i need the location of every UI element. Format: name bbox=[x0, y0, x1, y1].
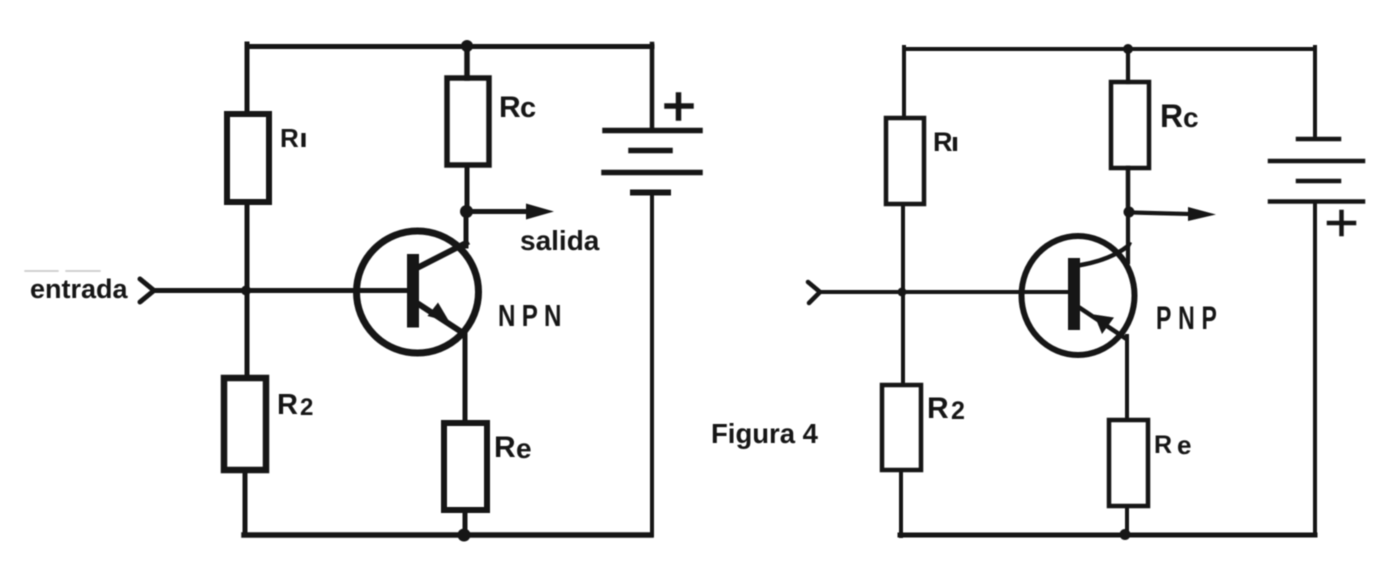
svg-text:salida: salida bbox=[520, 225, 600, 256]
svg-text:c: c bbox=[520, 92, 536, 124]
svg-text:NPN: NPN bbox=[498, 298, 568, 333]
svg-text:R: R bbox=[1154, 431, 1172, 459]
svg-text:R: R bbox=[277, 389, 298, 421]
svg-text:R: R bbox=[280, 123, 299, 153]
svg-text:Figura 4: Figura 4 bbox=[711, 418, 819, 449]
svg-text:e: e bbox=[1177, 430, 1191, 460]
svg-text:R: R bbox=[927, 392, 949, 425]
svg-text:c: c bbox=[1183, 102, 1199, 133]
svg-text:2: 2 bbox=[951, 397, 965, 425]
svg-text:2: 2 bbox=[300, 394, 313, 421]
svg-text:entrada: entrada bbox=[30, 274, 129, 304]
svg-text:R: R bbox=[1160, 98, 1183, 134]
svg-text:PNP: PNP bbox=[1156, 300, 1224, 336]
svg-text:R: R bbox=[499, 91, 521, 124]
svg-text:R: R bbox=[494, 431, 516, 464]
svg-text:e: e bbox=[516, 433, 532, 464]
svg-text:R: R bbox=[933, 127, 953, 157]
